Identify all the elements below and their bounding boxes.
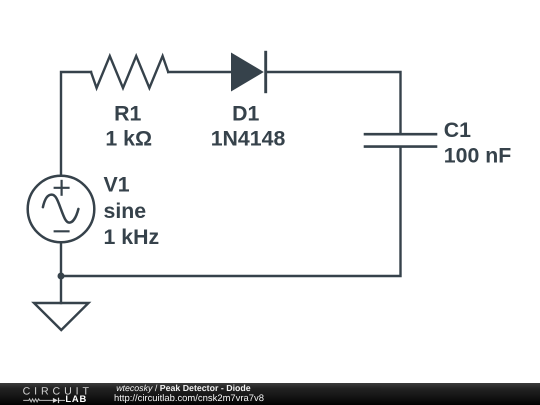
svg-text:V1: V1 <box>104 173 130 197</box>
svg-text:1N4148: 1N4148 <box>211 127 286 151</box>
svg-text:LAB: LAB <box>65 393 87 404</box>
svg-text:100 nF: 100 nF <box>444 144 511 168</box>
svg-text:1 kHz: 1 kHz <box>104 225 160 249</box>
svg-text:sine: sine <box>104 199 147 223</box>
svg-text:C1: C1 <box>444 118 471 142</box>
svg-text:R1: R1 <box>114 101 141 125</box>
svg-text:1 kΩ: 1 kΩ <box>105 127 152 151</box>
svg-text:D1: D1 <box>232 101 259 125</box>
